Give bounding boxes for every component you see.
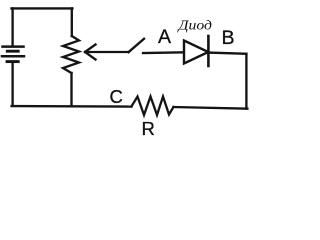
wire diode cathode to right corner	[208, 53, 246, 54]
battery GB1 plate short bottom	[7, 60, 18, 63]
diode VD1 triangle anode	[184, 41, 208, 64]
switch S1 lever (open)	[129, 39, 145, 52]
diode VD1 cathode bar	[207, 36, 210, 66]
wire top horizontal	[12, 7, 73, 9]
wiper arrow shaft wire	[86, 51, 129, 53]
svg-text:A: A	[158, 26, 171, 48]
wire potentiometer top	[71, 8, 73, 36]
wire potentiometer bottom	[70, 73, 72, 106]
battery GB1 plate long	[2, 55, 24, 58]
potentiometer wiper arrow barb lower	[85, 52, 96, 60]
wire right vertical	[245, 54, 247, 109]
svg-text:Диод: Диод	[176, 18, 212, 33]
svg-text:B: B	[222, 27, 235, 49]
battery GB1 plate short	[7, 50, 18, 53]
battery GB1 plate long top	[3, 45, 24, 48]
svg-text:C: C	[110, 86, 123, 107]
wire bottom right	[174, 107, 248, 109]
wire bottom left	[12, 105, 132, 108]
resistor R body zigzag	[132, 97, 174, 116]
wire switch to diode anode	[143, 51, 184, 54]
wire left vertical lower	[11, 63, 13, 106]
svg-text:R: R	[142, 118, 155, 139]
wire left vertical upper	[11, 8, 13, 45]
potentiometer body zigzag	[63, 36, 79, 73]
potentiometer wiper arrow barb upper	[85, 45, 96, 53]
